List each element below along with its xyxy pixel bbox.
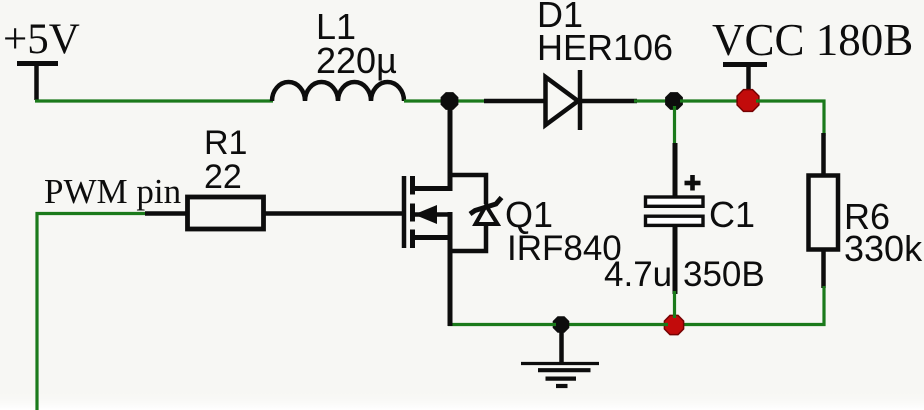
wire R1 to Q1 gate [264, 211, 403, 216]
wire VCC node to R6 top [756, 101, 824, 136]
wire +5V rail to L1 [35, 99, 273, 102]
wire ground node to Q1 source [448, 323, 556, 326]
transistor Q1 (N-MOSFET) [404, 176, 452, 326]
wire C1 to node C [673, 291, 676, 318]
wire L1 to D1 anode [404, 99, 545, 102]
resistor R6 [809, 133, 839, 288]
power symbol +5V [17, 64, 58, 101]
node C junction dot (red) [664, 315, 683, 334]
wire node C to ground node [566, 323, 668, 326]
svg-text:+5V: +5V [3, 16, 80, 63]
wire node B down to C1 [673, 106, 676, 146]
svg-text:350В: 350В [683, 255, 765, 294]
capacitor C1 [646, 143, 704, 294]
svg-text:VCC 180В: VCC 180В [712, 15, 913, 65]
svg-text:HER106: HER106 [537, 27, 673, 68]
ground node junction dot [553, 316, 570, 333]
wire node B to VCC node [680, 99, 740, 102]
wire R6 bottom to node C [682, 286, 824, 325]
svg-text:C1: C1 [709, 194, 755, 235]
svg-text:PWM pin: PWM pin [44, 172, 181, 211]
svg-text:IRF840: IRF840 [507, 229, 622, 268]
resistor R1 [188, 197, 264, 229]
svg-text:R1: R1 [204, 124, 247, 162]
diode D1 [546, 70, 581, 130]
node B junction dot [665, 92, 683, 110]
ground [521, 330, 599, 386]
wire PWM pin input [37, 214, 188, 410]
power symbol VCC [723, 65, 767, 94]
svg-text:22: 22 [204, 158, 242, 196]
wire D1 cathode to node B [580, 99, 668, 104]
node A junction dot [441, 92, 459, 110]
node VCC junction dot (red) [737, 90, 759, 112]
wire node A to Q1 drain [448, 106, 453, 191]
zener body diode of Q1 [448, 175, 502, 251]
svg-text:330k: 330k [844, 228, 923, 269]
svg-text:220µ: 220µ [316, 40, 397, 81]
inductor L1 [272, 82, 404, 101]
